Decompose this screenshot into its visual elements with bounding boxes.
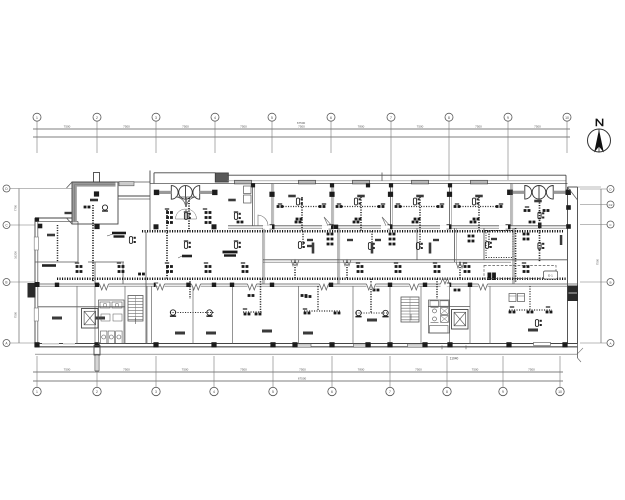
svg-text:7500: 7500 <box>417 124 424 128</box>
cable links y262 to corridor <box>294 262 296 279</box>
bottom grid bubble 1 <box>33 387 41 395</box>
right vertical dim line <box>600 189 602 343</box>
top wall outer line <box>228 174 567 176</box>
svg-text:D: D <box>5 187 8 191</box>
rain pipe left <box>94 346 100 356</box>
middle band partitions full height <box>262 228 264 284</box>
socket pairs lower rooms <box>248 294 251 297</box>
svg-text:B: B <box>609 281 611 285</box>
right grid bubble B <box>607 279 614 286</box>
socket pairs top rooms <box>237 221 240 224</box>
label top-left room <box>90 199 98 202</box>
panel label corridor <box>223 251 238 254</box>
cable T right lower room <box>509 309 552 311</box>
svg-text:16200: 16200 <box>14 251 18 259</box>
svg-text:2: 2 <box>96 390 98 394</box>
left vertical dim line <box>18 189 20 344</box>
svg-text:4: 4 <box>213 390 215 394</box>
door gaps upper wall <box>263 225 272 229</box>
svg-text:7500: 7500 <box>240 367 247 371</box>
toilet block left wing <box>99 300 125 344</box>
top grid bubble 5 <box>268 113 276 121</box>
corner column left wing <box>35 217 39 221</box>
entrance door arcs under joint <box>176 197 186 207</box>
left wing wall y262 <box>35 261 78 263</box>
svg-text:3: 3 <box>155 116 157 120</box>
bottom dimension line A <box>33 371 563 373</box>
left wing partitions <box>77 222 79 263</box>
doors on y260 wall <box>291 260 299 266</box>
columns corridor wall y284 <box>55 283 59 287</box>
svg-text:E-1: E-1 <box>548 273 553 277</box>
cable riser left wing x93 <box>92 205 94 282</box>
svg-text:67500: 67500 <box>297 121 306 125</box>
svg-text:7500: 7500 <box>240 124 247 128</box>
vertical label right wall <box>560 235 563 245</box>
svg-text:10: 10 <box>558 390 562 394</box>
panel label left wing <box>112 232 126 235</box>
fixtures lower band <box>535 320 538 327</box>
svg-text:A: A <box>5 342 8 346</box>
left wall <box>34 218 36 344</box>
door gaps corridor wall <box>248 283 257 286</box>
cable riser left wing x189 <box>188 198 190 231</box>
cable T lower rooms <box>243 311 262 313</box>
fan fixtures room 353-390 <box>356 312 388 314</box>
svg-text:1: 1 <box>36 116 38 120</box>
window top wall <box>235 180 252 184</box>
window bottom wall <box>354 344 371 347</box>
fixtures top band <box>184 213 187 220</box>
top grid bubble 9 <box>504 113 512 121</box>
svg-text:7800: 7800 <box>358 124 365 128</box>
cable loop right mid room <box>515 228 517 283</box>
fixture stack right rooms <box>523 233 526 236</box>
stair right core <box>401 297 419 322</box>
svg-text:C2: C2 <box>609 203 613 207</box>
left grid bubble B <box>3 279 10 286</box>
door top band rooms <box>258 215 268 226</box>
connector top wall <box>118 181 150 183</box>
top dimension line A <box>33 128 570 130</box>
wall middle band bottom y260 <box>263 259 568 261</box>
svg-text:7: 7 <box>389 390 391 394</box>
cable loop top right room <box>539 200 541 262</box>
svg-text:C: C <box>609 223 612 227</box>
window top wall <box>353 180 370 184</box>
bottom grid bubble 3 <box>152 387 160 395</box>
cable riser left wing x167 <box>166 210 168 279</box>
top grid bubble 3 <box>152 113 160 121</box>
svg-text:10: 10 <box>565 116 569 120</box>
utility shaft boxes x244 <box>244 186 252 194</box>
bottom grid bubble 10 <box>556 387 564 395</box>
svg-text:8: 8 <box>448 116 450 120</box>
main slab left wall upper <box>149 171 151 184</box>
room labels middle band <box>307 239 313 241</box>
top grid bubble 10 <box>563 113 571 121</box>
svg-text:7500: 7500 <box>299 367 306 371</box>
bottom grid bubble 6 <box>328 387 336 395</box>
chimney shaft <box>94 173 100 183</box>
svg-text:1: 1 <box>36 390 38 394</box>
right wall corner brace <box>568 187 578 200</box>
window bottom wall <box>408 344 425 347</box>
vertical label stacks middle band <box>312 243 315 254</box>
svg-text:7500: 7500 <box>64 367 71 371</box>
bottom dimension line B <box>33 380 563 382</box>
fixtures middle band <box>184 242 187 249</box>
right corner tie line <box>578 186 602 188</box>
svg-text:B: B <box>5 281 7 285</box>
right wall <box>565 175 567 190</box>
svg-text:9: 9 <box>507 116 509 120</box>
fixture stacks above cable y279 <box>76 265 79 268</box>
bottom wall windows left wing <box>42 343 59 345</box>
window bottom wall <box>294 344 311 347</box>
svg-text:7500: 7500 <box>472 367 479 371</box>
svg-text:7500: 7500 <box>123 124 130 128</box>
fixture stacks middle rooms <box>327 233 330 236</box>
svg-text:11040: 11040 <box>450 356 459 360</box>
svg-text:6: 6 <box>330 116 332 120</box>
svg-text:D: D <box>609 188 612 192</box>
svg-text:7700: 7700 <box>14 204 18 211</box>
right toilet wall y307 <box>428 306 470 308</box>
left wing toilet wall y307 <box>38 306 125 308</box>
bottom grid bubble 2 <box>93 387 101 395</box>
svg-text:6: 6 <box>331 390 333 394</box>
expansion joint symbol <box>507 186 571 200</box>
fan top-left room <box>102 205 107 210</box>
misc labels <box>47 234 55 237</box>
cable drops top rooms <box>301 197 303 231</box>
svg-text:7500: 7500 <box>475 124 482 128</box>
toilet block right core <box>429 300 450 333</box>
connector wall y196 <box>118 195 150 197</box>
svg-text:5: 5 <box>272 390 274 394</box>
expansion joint symbol <box>154 186 218 200</box>
entry threshold bottom right <box>534 342 551 345</box>
svg-text:C: C <box>5 224 8 228</box>
corridor bottom wall y284 <box>35 283 578 285</box>
elevator shaft <box>452 310 469 330</box>
svg-text:4: 4 <box>214 116 216 120</box>
left wing top wall <box>35 217 72 219</box>
bottom grid bubble 7 <box>386 387 394 395</box>
top grid bubble 6 <box>327 113 335 121</box>
main cable run y231 <box>142 230 563 233</box>
svg-text:2: 2 <box>96 116 98 120</box>
right grid bubble C2 <box>607 201 614 208</box>
columns left wing <box>94 191 99 196</box>
right grid bubble A <box>607 340 614 347</box>
elevator shaft <box>82 309 99 329</box>
outer wall top porch <box>154 172 216 174</box>
bottom grid bubble 8 <box>443 387 451 395</box>
doors upward from corridor <box>441 278 450 284</box>
flag tick on top wall <box>381 173 383 181</box>
main cable run y279 <box>57 278 567 281</box>
window top wall <box>412 180 429 184</box>
stair arrows <box>135 318 137 324</box>
stair left wing <box>128 296 143 322</box>
columns hanging below top wall <box>269 192 274 197</box>
bottom wall <box>35 343 578 345</box>
left grid bubble A <box>3 340 10 347</box>
columns mid wall y226 <box>154 224 159 229</box>
svg-text:7800: 7800 <box>358 367 365 371</box>
middle band partitions to y260 <box>416 228 418 260</box>
columns right wall <box>566 205 571 210</box>
cable riser left wing x57 <box>57 225 59 262</box>
svg-text:7500: 7500 <box>298 124 305 128</box>
top grid bubble 2 <box>93 113 101 121</box>
bed symbols right bottom room <box>509 294 516 302</box>
fan fixtures rooms b-VIP <box>170 312 214 314</box>
window top wall <box>471 180 488 184</box>
svg-text:7: 7 <box>390 116 392 120</box>
top wall inner lines <box>150 183 568 185</box>
micro labels near fixtures <box>278 203 282 205</box>
doors downward into lower rooms <box>248 284 257 290</box>
left wall windows <box>34 237 38 250</box>
right grid bubble D <box>607 186 614 193</box>
fixture stacks above cable y231 <box>166 211 169 214</box>
mini dimension ticks under wall <box>441 345 443 349</box>
columns bottom wall <box>34 342 39 347</box>
columns top wall embedded <box>251 183 255 187</box>
top grid bubble 1 <box>33 113 41 121</box>
bottom grid bubble 9 <box>499 387 507 395</box>
right grid bubble C <box>607 221 614 228</box>
column right edge blob <box>568 286 579 302</box>
svg-text:A: A <box>609 342 611 346</box>
svg-text:7500: 7500 <box>182 367 189 371</box>
svg-text:7500: 7500 <box>596 258 600 265</box>
bottom grid bubble 5 <box>269 387 277 395</box>
lower band partitions <box>76 286 78 343</box>
north arrow <box>588 119 611 153</box>
wall under top room band <box>228 225 568 227</box>
bottom grid bubble 4 <box>210 387 218 395</box>
top grid bubble 8 <box>445 113 453 121</box>
svg-text:7500: 7500 <box>182 124 189 128</box>
svg-text:7500: 7500 <box>528 367 535 371</box>
window top wall <box>299 180 316 184</box>
top dimension line B <box>33 136 570 138</box>
svg-text:9: 9 <box>502 390 504 394</box>
equipment dashed box right <box>484 266 556 279</box>
right edge extension below <box>577 344 579 359</box>
dark panel corridor x491 <box>488 273 492 281</box>
svg-text:8: 8 <box>446 390 448 394</box>
column left edge blob <box>28 283 36 298</box>
top-left room outline <box>73 182 77 223</box>
svg-text:7500: 7500 <box>14 311 18 318</box>
dark canopy slab top <box>215 173 228 182</box>
terrace ground line <box>35 353 577 355</box>
svg-text:7500: 7500 <box>64 124 71 128</box>
top grid bubble 7 <box>387 113 395 121</box>
room labels top band <box>228 199 236 202</box>
svg-text:67500: 67500 <box>298 377 307 381</box>
svg-text:7500: 7500 <box>123 367 130 371</box>
svg-text:7500: 7500 <box>415 367 422 371</box>
svg-text:3: 3 <box>155 390 157 394</box>
cable drops middle rooms <box>302 231 304 248</box>
left grid bubble C <box>3 222 10 229</box>
top band partitions <box>252 184 254 226</box>
svg-text:7500: 7500 <box>534 124 541 128</box>
room labels lower band <box>52 317 62 320</box>
cable drops lower rooms <box>189 279 191 299</box>
top grid bubble 4 <box>211 113 219 121</box>
svg-text:5: 5 <box>271 116 273 120</box>
left grid bubble D <box>3 185 10 192</box>
